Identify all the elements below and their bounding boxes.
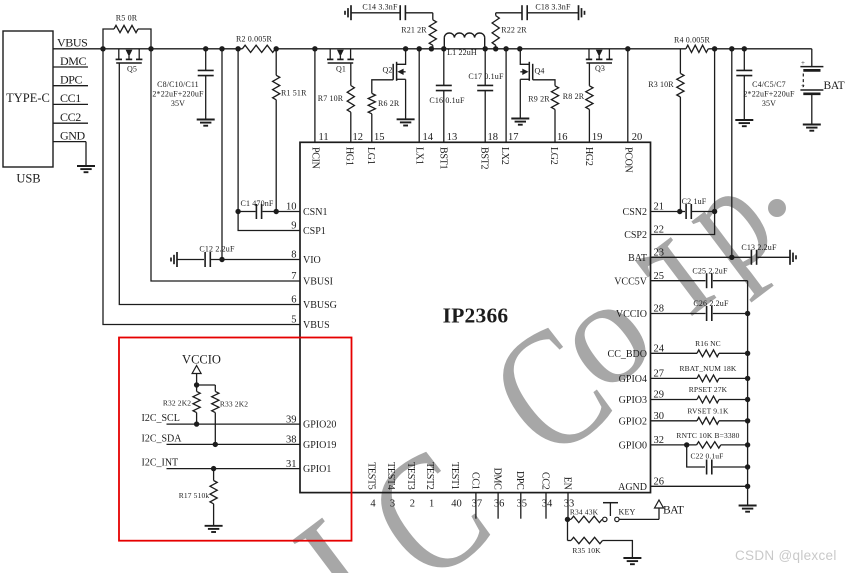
svg-text:R9 2R: R9 2R: [528, 95, 550, 104]
svg-text:GPIO20: GPIO20: [303, 420, 336, 431]
svg-text:DPC: DPC: [514, 471, 525, 490]
svg-text:VBUSG: VBUSG: [303, 300, 337, 311]
svg-text:CC1: CC1: [469, 472, 480, 490]
svg-text:TEST5: TEST5: [365, 462, 376, 490]
svg-text:C26 2.2uF: C26 2.2uF: [693, 299, 729, 308]
svg-text:HG1: HG1: [343, 147, 354, 166]
svg-text:R21 2R: R21 2R: [401, 26, 427, 35]
svg-text:3: 3: [390, 499, 395, 510]
svg-text:HG2: HG2: [583, 147, 594, 166]
svg-text:R16 NC: R16 NC: [695, 339, 721, 348]
svg-text:34: 34: [542, 499, 553, 510]
svg-text:CC1: CC1: [60, 91, 81, 105]
svg-text:R22 2R: R22 2R: [501, 26, 527, 35]
svg-text:R33 2K2: R33 2K2: [220, 400, 248, 409]
svg-text:9: 9: [291, 221, 296, 232]
svg-text:CSN1: CSN1: [303, 207, 327, 218]
svg-text:I2C_INT: I2C_INT: [142, 458, 179, 469]
svg-text:RNTC 10K B=3380: RNTC 10K B=3380: [676, 431, 739, 440]
svg-text:Q3: Q3: [595, 64, 605, 73]
svg-text:CC2: CC2: [60, 110, 81, 124]
svg-text:LX2: LX2: [499, 147, 510, 165]
svg-text:BAT: BAT: [663, 505, 684, 517]
svg-text:CSP2: CSP2: [624, 230, 647, 241]
svg-text:KEY: KEY: [619, 508, 636, 517]
svg-text:L1 22uH: L1 22uH: [447, 48, 477, 57]
svg-text:C16 0.1uF: C16 0.1uF: [429, 96, 465, 105]
svg-text:BST1: BST1: [438, 147, 449, 169]
svg-text:C18 3.3nF: C18 3.3nF: [535, 3, 571, 12]
svg-text:R32 2K2: R32 2K2: [163, 399, 191, 408]
svg-text:35V: 35V: [762, 99, 776, 108]
svg-text:C13 2.2uF: C13 2.2uF: [741, 243, 777, 252]
svg-text:R2 0.005R: R2 0.005R: [236, 35, 273, 44]
svg-text:12: 12: [353, 132, 364, 143]
svg-text:15: 15: [374, 132, 385, 143]
svg-text:35: 35: [517, 499, 528, 510]
svg-text:RBAT_NUM 18K: RBAT_NUM 18K: [679, 364, 736, 373]
svg-text:R4 0.005R: R4 0.005R: [674, 36, 711, 45]
svg-text:CC2: CC2: [539, 472, 550, 490]
svg-text:BAT: BAT: [824, 80, 845, 92]
svg-text:37: 37: [472, 499, 483, 510]
svg-text:R7 10R: R7 10R: [318, 94, 344, 103]
svg-text:C14 3.3nF: C14 3.3nF: [362, 3, 398, 12]
svg-text:R6 2R: R6 2R: [378, 99, 400, 108]
svg-text:VIO: VIO: [303, 255, 321, 266]
svg-text:C12 2.2uF: C12 2.2uF: [199, 245, 235, 254]
svg-text:LX1: LX1: [413, 147, 424, 165]
svg-text:GPIO1: GPIO1: [303, 464, 331, 475]
svg-text:TEST2: TEST2: [424, 462, 435, 490]
svg-text:5: 5: [291, 315, 296, 326]
svg-text:VCCIO: VCCIO: [616, 309, 647, 320]
svg-text:Q4: Q4: [534, 67, 544, 76]
svg-text:USB: USB: [16, 172, 40, 186]
svg-text:C22 0.1uF: C22 0.1uF: [690, 452, 723, 461]
svg-text:18: 18: [488, 132, 499, 143]
svg-text:PCON: PCON: [623, 147, 634, 173]
svg-text:Q1: Q1: [336, 65, 346, 74]
svg-text:VCCIO: VCCIO: [182, 353, 221, 367]
svg-text:40: 40: [451, 499, 462, 510]
svg-text:C17 0.1uF: C17 0.1uF: [468, 72, 504, 81]
svg-text:16: 16: [557, 132, 568, 143]
svg-text:LG1: LG1: [365, 147, 376, 165]
svg-text:6: 6: [291, 295, 296, 306]
svg-text:TYPE-C: TYPE-C: [6, 91, 50, 105]
svg-text:2*22uF+220uF: 2*22uF+220uF: [152, 90, 204, 99]
svg-text:VCC5V: VCC5V: [614, 276, 648, 287]
svg-text:VBUS: VBUS: [303, 320, 330, 331]
svg-text:C2 1uF: C2 1uF: [682, 197, 707, 206]
svg-text:11: 11: [319, 132, 329, 143]
svg-text:DMC: DMC: [60, 54, 87, 68]
svg-text:GPIO3: GPIO3: [619, 395, 647, 406]
svg-text:8: 8: [291, 250, 296, 261]
svg-text:RVSET 9.1K: RVSET 9.1K: [687, 406, 729, 415]
svg-text:R8 2R: R8 2R: [563, 92, 585, 101]
svg-text:CSN2: CSN2: [623, 207, 647, 218]
svg-text:2: 2: [410, 499, 415, 510]
svg-text:+: +: [801, 59, 805, 67]
svg-text:GPIO2: GPIO2: [619, 416, 647, 427]
svg-text:CSP1: CSP1: [303, 226, 326, 237]
svg-text:DMC: DMC: [492, 468, 503, 491]
svg-text:C8/C10/C11: C8/C10/C11: [157, 80, 199, 89]
svg-text:10: 10: [286, 202, 297, 213]
svg-text:35V: 35V: [171, 99, 185, 108]
svg-text:LG2: LG2: [548, 147, 559, 165]
svg-text:Q2: Q2: [382, 66, 392, 75]
svg-text:2*22uF+220uF: 2*22uF+220uF: [743, 90, 795, 99]
svg-text:DPC: DPC: [60, 73, 83, 87]
svg-text:20: 20: [632, 132, 643, 143]
svg-text:C1 470nF: C1 470nF: [241, 199, 274, 208]
svg-text:GPIO4: GPIO4: [619, 374, 647, 385]
svg-text:GPIO19: GPIO19: [303, 440, 336, 451]
svg-text:TEST4: TEST4: [385, 462, 396, 490]
svg-text:4: 4: [370, 499, 376, 510]
svg-text:I2C_SCL: I2C_SCL: [142, 413, 180, 424]
svg-text:BAT: BAT: [628, 253, 647, 264]
svg-text:GND: GND: [60, 128, 86, 142]
svg-text:CSDN @qlexcel: CSDN @qlexcel: [735, 548, 837, 563]
svg-text:17: 17: [508, 132, 519, 143]
svg-text:Q5: Q5: [127, 65, 137, 74]
svg-text:14: 14: [423, 132, 434, 143]
svg-text:R1 51R: R1 51R: [281, 89, 307, 98]
svg-text:7: 7: [291, 271, 296, 282]
svg-text:TEST1: TEST1: [449, 462, 460, 490]
svg-text:19: 19: [592, 132, 603, 143]
svg-text:I2C_SDA: I2C_SDA: [142, 433, 183, 444]
svg-text:PCIN: PCIN: [309, 147, 320, 169]
svg-text:IP2366: IP2366: [443, 304, 509, 328]
svg-text:R17 510k: R17 510k: [179, 491, 210, 500]
svg-text:R34 43K: R34 43K: [570, 508, 599, 517]
svg-text:C25 2.2uF: C25 2.2uF: [692, 267, 728, 276]
svg-text:GPIO0: GPIO0: [619, 441, 647, 452]
svg-text:13: 13: [447, 132, 458, 143]
svg-text:C4/C5/C7: C4/C5/C7: [752, 80, 786, 89]
svg-text:AGND: AGND: [618, 482, 647, 493]
svg-text:EN: EN: [561, 477, 572, 490]
svg-text:CC_BDO: CC_BDO: [608, 349, 647, 360]
svg-text:R5 0R: R5 0R: [116, 14, 138, 23]
svg-text:36: 36: [494, 499, 505, 510]
svg-text:VBUS: VBUS: [57, 36, 87, 50]
svg-text:RPSET 27K: RPSET 27K: [689, 385, 728, 394]
svg-text:R35 10K: R35 10K: [572, 546, 601, 555]
svg-text:22: 22: [654, 225, 665, 236]
svg-text:TEST3: TEST3: [405, 462, 416, 490]
svg-text:R3 10R: R3 10R: [648, 80, 674, 89]
svg-text:BST2: BST2: [478, 147, 489, 169]
svg-text:1: 1: [429, 499, 434, 510]
svg-text:VBUSI: VBUSI: [303, 277, 333, 288]
